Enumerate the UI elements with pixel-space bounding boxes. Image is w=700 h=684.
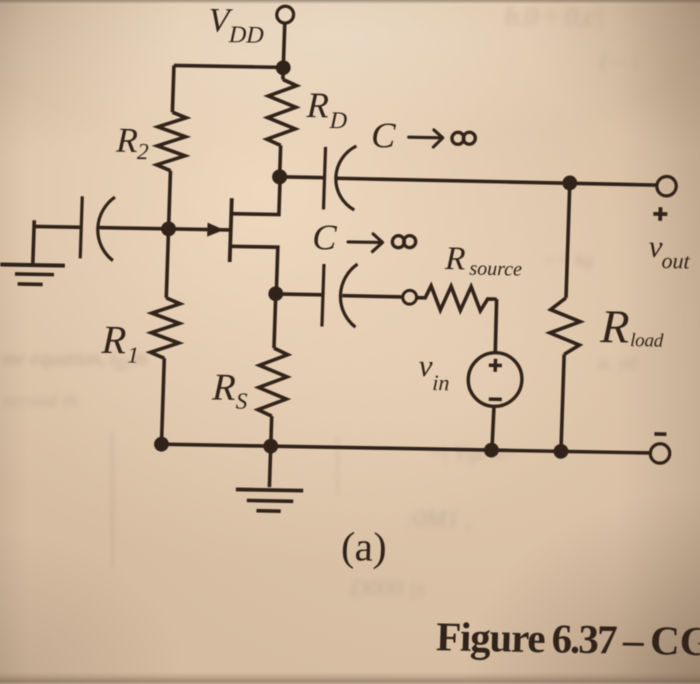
resistor RD xyxy=(267,79,297,146)
node drain junction xyxy=(272,169,287,184)
wire source node to C2 xyxy=(276,292,323,296)
svg-text:R: R xyxy=(211,367,237,409)
node bottom R_load xyxy=(553,444,568,459)
wire R_source down to v_in xyxy=(495,299,497,353)
node source junction xyxy=(268,286,283,301)
svg-text:source: source xyxy=(469,258,522,281)
wire top rail xyxy=(174,65,283,67)
transistor Q1 gate arrow xyxy=(207,223,224,237)
minus sign v_out xyxy=(654,432,666,436)
ground-left stub bar xyxy=(33,220,34,263)
label RS xyxy=(211,367,250,414)
source v_in circle xyxy=(467,352,522,407)
caption Figure 6.37 - CG xyxy=(436,613,700,664)
svg-text:–: – xyxy=(622,617,646,663)
svg-text:Figure: Figure xyxy=(436,613,547,661)
resistor RS xyxy=(258,348,288,417)
wire top rail to R2 xyxy=(172,65,174,112)
label (a) xyxy=(340,523,387,570)
svg-text:R: R xyxy=(115,121,139,160)
svg-text:C: C xyxy=(312,217,338,257)
wire RS node to ground xyxy=(269,446,270,487)
capacitor C2 flat plate xyxy=(322,264,324,327)
label C1 : C arrow infinity xyxy=(371,115,397,155)
resistor R_source xyxy=(417,286,497,311)
input terminal circle xyxy=(403,290,417,304)
wire RD top tail xyxy=(281,67,285,79)
ground bottom xyxy=(236,489,303,490)
wire VDD terminal to top node xyxy=(283,23,285,67)
svg-text:in: in xyxy=(432,370,450,395)
label R1 xyxy=(100,317,140,368)
label R_source xyxy=(444,241,523,281)
svg-text:C: C xyxy=(371,115,397,155)
C1 arrow glyph xyxy=(408,129,443,147)
wire output node to R_load xyxy=(566,183,570,298)
v_in minus sign xyxy=(489,397,502,401)
label v_out xyxy=(648,229,692,274)
wire RS to bottom node xyxy=(269,416,274,446)
svg-text:R: R xyxy=(444,241,466,277)
ground left xyxy=(0,264,65,265)
wire R1 to bottom-left node xyxy=(161,358,164,444)
C2 infinity glyph xyxy=(392,235,416,248)
svg-text:load: load xyxy=(630,330,664,352)
wire gate (cap to arrow) xyxy=(98,228,230,230)
wire R_load to bottom rail xyxy=(561,354,564,451)
label VDD xyxy=(208,2,265,48)
svg-text:2: 2 xyxy=(137,139,149,164)
svg-text:R: R xyxy=(599,301,630,354)
resistor R1 xyxy=(150,298,180,359)
bottom output terminal circle xyxy=(650,444,670,464)
wire C3 to ground stub xyxy=(34,225,81,229)
svg-text:1: 1 xyxy=(127,343,139,368)
node output junction xyxy=(562,175,577,190)
node bottom RS xyxy=(263,439,278,454)
label RD xyxy=(305,85,348,134)
svg-text:6.37: 6.37 xyxy=(551,615,618,662)
ghost bleed-through texts xyxy=(505,2,603,32)
svg-text:R: R xyxy=(100,317,127,362)
VDD terminal circle xyxy=(277,6,294,23)
node VDD/RD junction xyxy=(276,60,291,75)
label R_load xyxy=(599,301,665,354)
svg-text:D: D xyxy=(328,108,347,134)
wire drain node to C1 xyxy=(280,175,325,179)
svg-text:v: v xyxy=(418,348,433,383)
capacitor C3 flat plate (left) xyxy=(80,196,82,258)
v_in plus sign xyxy=(489,363,502,367)
svg-text:(a): (a) xyxy=(340,523,387,570)
resistor R2 xyxy=(156,112,186,171)
wire R2 to gate node xyxy=(169,171,171,229)
svg-text:DD: DD xyxy=(228,22,265,49)
capacitor C1 flat plate xyxy=(323,147,325,210)
capacitor C2 curved plate xyxy=(339,264,357,327)
C2 arrow glyph xyxy=(348,233,383,251)
output terminal circle xyxy=(657,176,677,196)
capacitor C3 curved plate xyxy=(97,197,115,261)
wire bottom rail xyxy=(161,444,650,453)
capacitor C1 curved plate xyxy=(335,146,357,210)
wire v_in to bottom rail xyxy=(492,406,494,450)
wire C2 to input terminal xyxy=(342,296,403,297)
label C2 : C arrow infinity xyxy=(312,217,338,257)
wire RD to drain node xyxy=(280,145,281,176)
label R2 xyxy=(115,121,150,165)
transistor Q1 source lead xyxy=(229,246,278,293)
node bottom-left xyxy=(154,437,169,452)
node gate junction xyxy=(161,221,176,236)
wire source node to RS xyxy=(274,294,276,348)
transistor Q1 drain lead xyxy=(231,176,280,215)
svg-text:CG: CG xyxy=(650,617,700,664)
svg-text:R: R xyxy=(305,85,329,125)
node bottom v_in xyxy=(484,443,499,458)
resistor R_load xyxy=(549,298,581,355)
C1 infinity glyph xyxy=(452,132,476,145)
wire gate node to R1 xyxy=(166,229,168,298)
svg-text:out: out xyxy=(661,248,691,274)
plus sign v_out xyxy=(653,212,667,216)
transistor Q1 channel bar xyxy=(230,198,232,262)
label v_in xyxy=(418,348,451,395)
wire C1 to output terminal xyxy=(336,178,656,185)
svg-text:S: S xyxy=(236,388,249,413)
